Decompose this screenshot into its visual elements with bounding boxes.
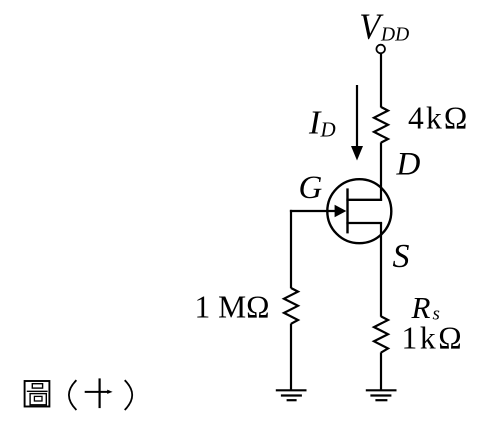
transistor drain stub xyxy=(346,199,382,201)
caption close paren xyxy=(125,380,133,410)
svg-text:4kΩ: 4kΩ xyxy=(408,100,470,135)
wire 1M to ground xyxy=(290,324,292,390)
transistor body circle xyxy=(327,179,391,243)
resistor 1M (gate) xyxy=(284,288,298,324)
wire gate horizontal xyxy=(290,210,336,212)
wire R to drain xyxy=(380,142,382,201)
svg-text:D: D xyxy=(396,146,421,182)
label Rs xyxy=(411,290,440,325)
svg-text:G: G xyxy=(299,170,323,206)
current arrow ID xyxy=(351,85,363,161)
svg-text:1 MΩ: 1 MΩ xyxy=(195,290,270,325)
ground left xyxy=(276,390,307,400)
caption open paren xyxy=(69,380,77,410)
transistor source stub xyxy=(346,222,382,224)
VDD terminal circle xyxy=(376,45,385,54)
wire 1k to ground xyxy=(380,352,382,390)
wire gate down xyxy=(290,210,292,288)
gate arrow xyxy=(335,205,347,217)
wire VDD to R drain xyxy=(380,53,382,107)
svg-text:1kΩ: 1kΩ xyxy=(402,320,465,355)
transistor channel bar xyxy=(346,188,348,233)
svg-text:D: D xyxy=(320,118,336,142)
wire source down xyxy=(380,223,382,317)
ground right xyxy=(366,390,397,400)
resistor 1k (source) xyxy=(374,316,388,352)
resistor 4k (drain) xyxy=(374,107,388,143)
svg-text:S: S xyxy=(393,238,410,275)
caption glyph TU (figure) xyxy=(25,381,50,407)
label ID xyxy=(308,105,336,142)
svg-text:DD: DD xyxy=(380,24,409,45)
caption glyph ten xyxy=(85,378,113,408)
